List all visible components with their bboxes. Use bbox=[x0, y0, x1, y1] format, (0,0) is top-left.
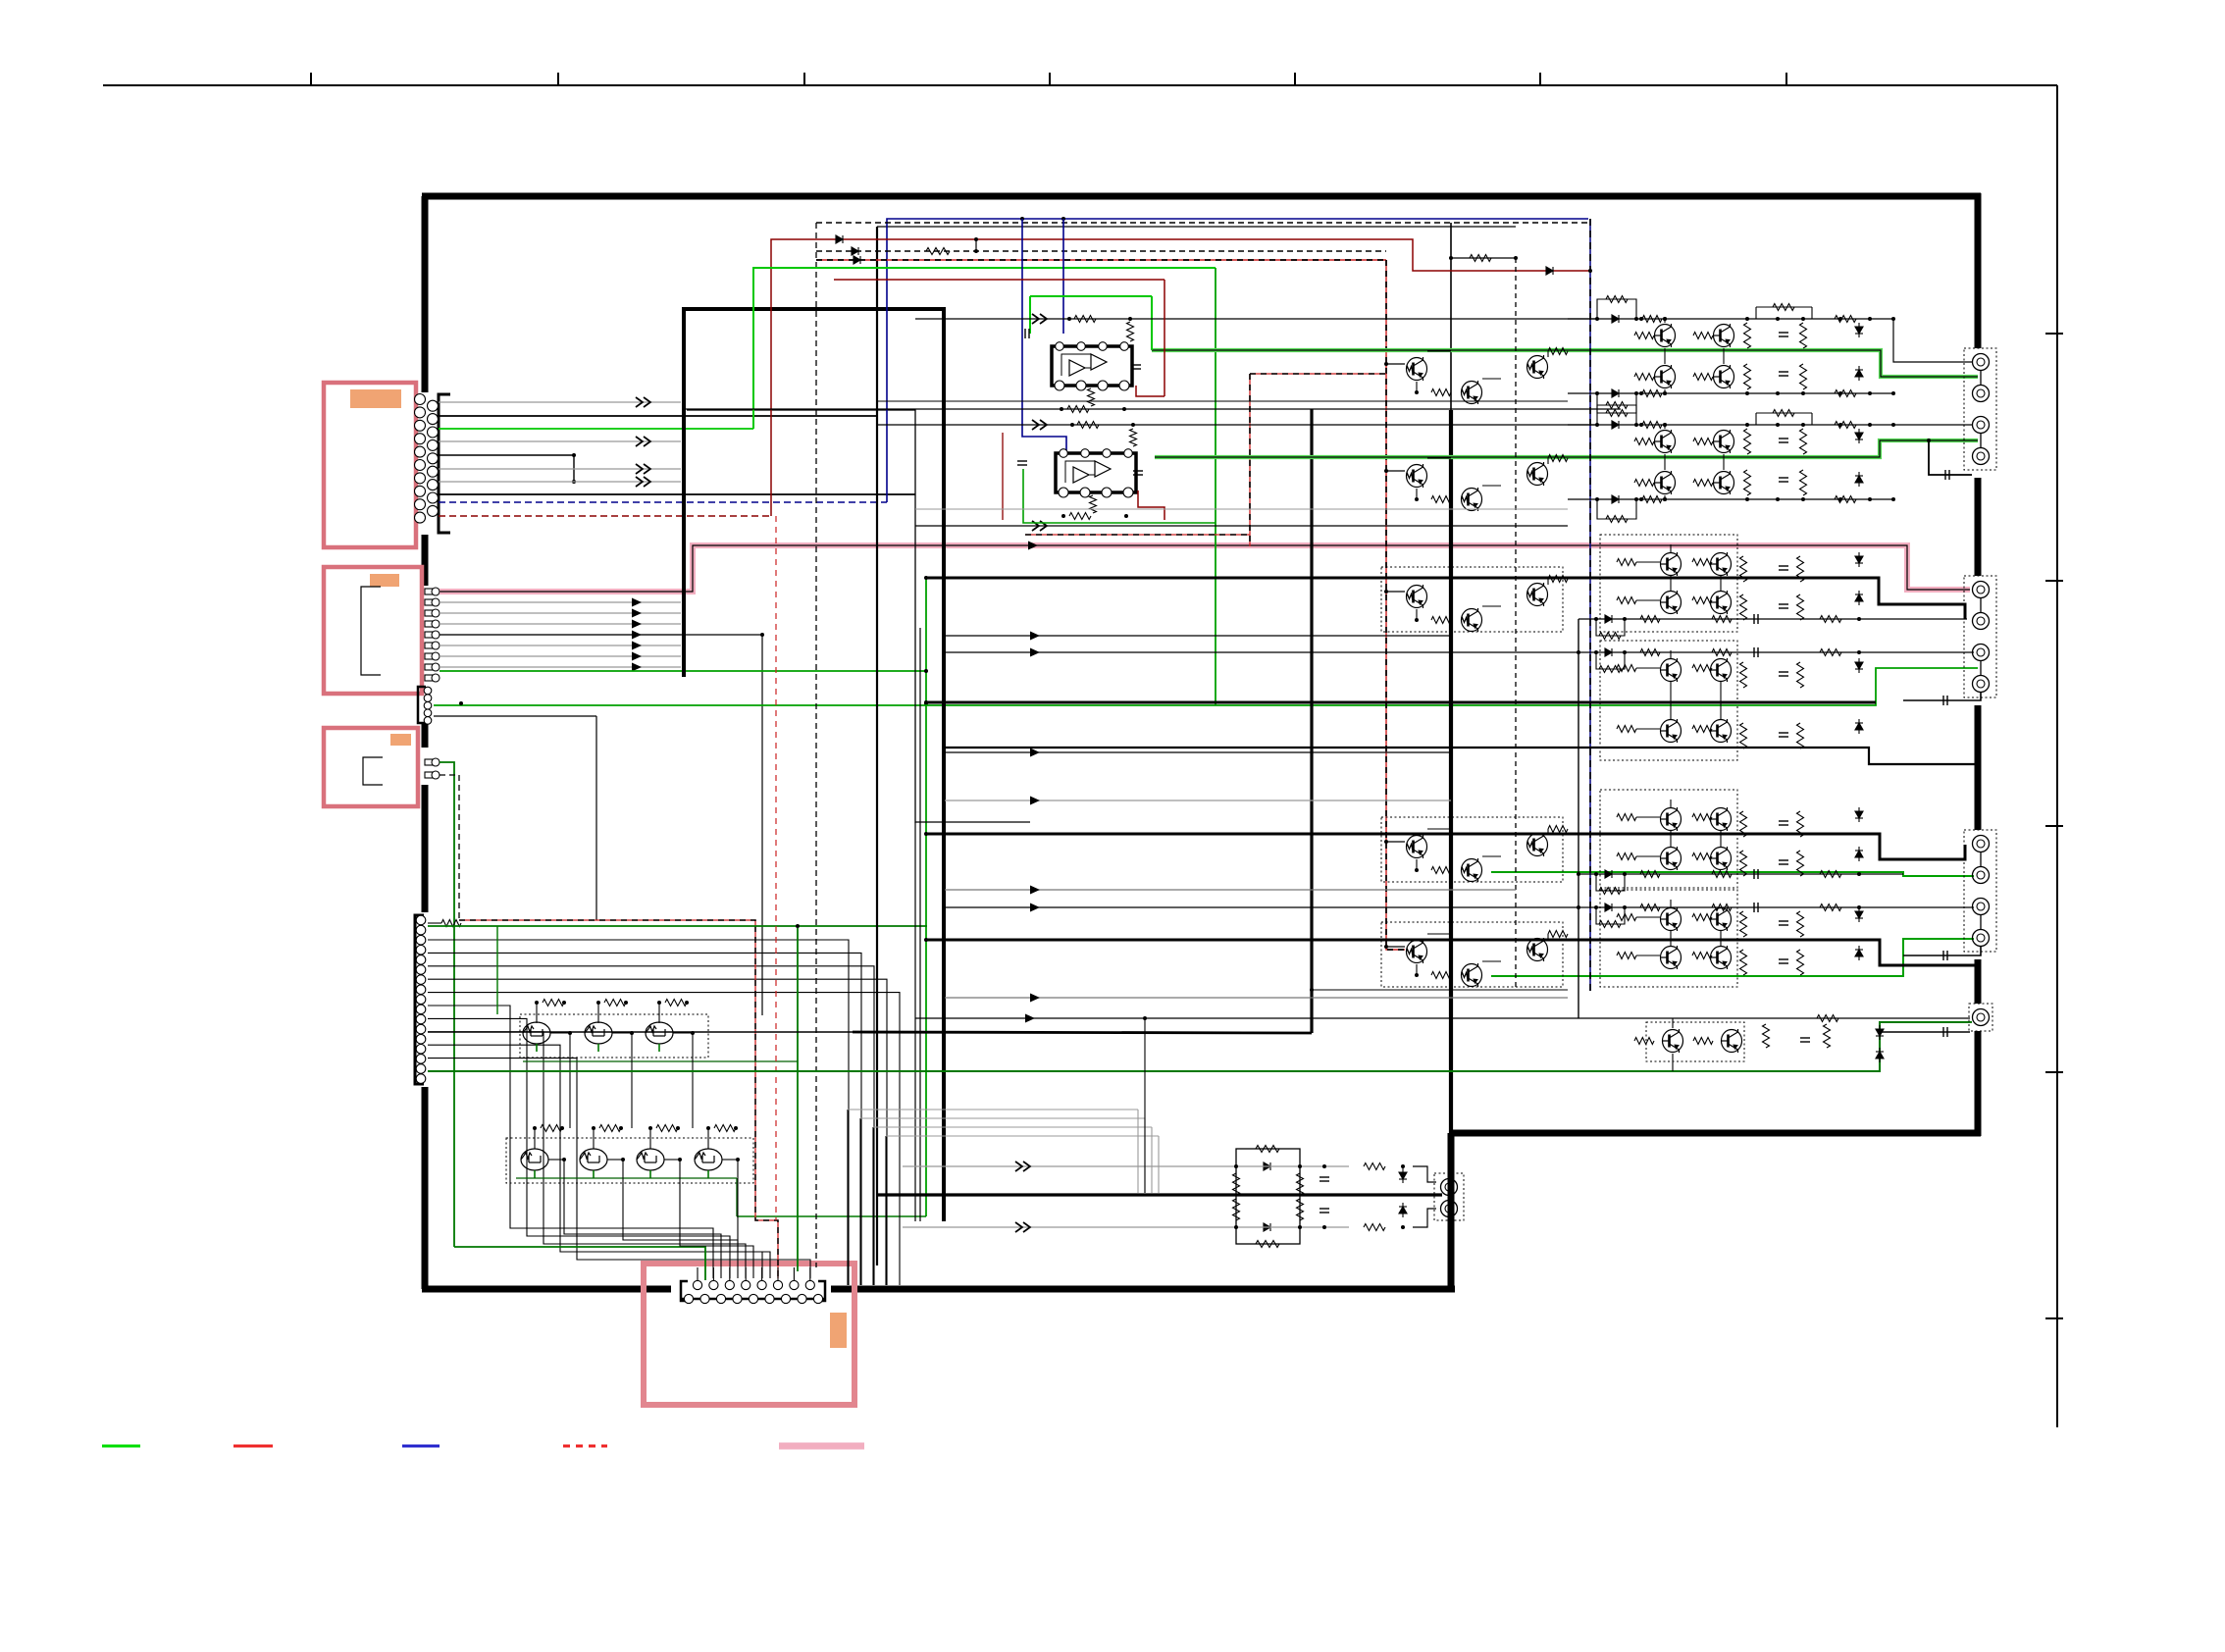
resistor R65 bbox=[1797, 556, 1804, 582]
junction bbox=[1128, 317, 1132, 321]
junction bbox=[1857, 617, 1861, 621]
diode D23 bbox=[1605, 870, 1612, 878]
op-amp U1 internal wire bbox=[1085, 367, 1091, 369]
wire bbox=[649, 1128, 651, 1149]
wire bbox=[1482, 485, 1501, 487]
green cluster B drop bbox=[736, 1178, 738, 1216]
wire sub branch bbox=[1144, 1018, 1146, 1193]
wire bbox=[1756, 306, 1812, 308]
wire bbox=[1664, 348, 1666, 364]
headphone jack outline bbox=[1434, 1173, 1464, 1220]
wire bbox=[1547, 458, 1549, 464]
blue wire to IC1 bbox=[1062, 219, 1064, 334]
junction bbox=[734, 1126, 738, 1130]
transistor CH4 Q13 bbox=[1711, 658, 1732, 682]
wire CN1 red dashed signal bbox=[439, 515, 771, 517]
op-amp U1 bbox=[1052, 346, 1132, 386]
resistor R79 bbox=[1740, 811, 1747, 837]
output group FRONT jack J1 bbox=[1973, 354, 1990, 371]
connector block CB2 inner bracket bbox=[361, 587, 381, 675]
junction bbox=[1801, 497, 1805, 501]
op-amp U2 pin bbox=[1060, 449, 1068, 458]
resistor R60 bbox=[1692, 559, 1712, 566]
resistor R103 bbox=[1599, 921, 1621, 928]
junction bbox=[1415, 618, 1419, 622]
wire CN3 green signal bbox=[440, 762, 454, 1247]
resistor R62 bbox=[1692, 597, 1712, 604]
connector block CB3 outline bbox=[324, 728, 418, 806]
capacitor C9 bbox=[1779, 821, 1788, 825]
junction bbox=[1776, 391, 1780, 395]
resistor R46 bbox=[1642, 422, 1662, 429]
resistor R70 bbox=[1692, 726, 1712, 733]
frame top ruler line bbox=[103, 84, 2057, 86]
wire bbox=[1416, 489, 1418, 499]
connector CN1 pin p4 bbox=[415, 434, 426, 444]
wire bbox=[1672, 1018, 1674, 1028]
wire loop bbox=[1596, 874, 1625, 891]
wire stub bbox=[697, 1267, 699, 1280]
capacitor U2 out bbox=[1133, 471, 1143, 475]
main board border left segment bbox=[422, 196, 429, 392]
signal arrow A6 bbox=[632, 598, 642, 607]
capacitor REAR bbox=[1943, 696, 1947, 705]
power rail channel 5 bbox=[926, 834, 1965, 859]
main board border left segment bbox=[422, 535, 429, 586]
frame tick bbox=[310, 73, 312, 85]
frame tick bbox=[2045, 1317, 2063, 1319]
wire bbox=[1720, 931, 1722, 946]
junction bbox=[1745, 497, 1749, 501]
wire CN1 blue dashed signal bbox=[439, 501, 887, 503]
resistor R78 bbox=[1692, 853, 1712, 860]
junction bbox=[1298, 1164, 1302, 1168]
wire bbox=[1720, 682, 1722, 719]
resistor R50 bbox=[1634, 480, 1654, 487]
wire bbox=[1670, 682, 1672, 719]
junction bbox=[1663, 497, 1667, 501]
resistor R64 bbox=[1740, 594, 1747, 620]
junction bbox=[592, 1126, 595, 1130]
signal arrow A22 bbox=[1030, 994, 1040, 1003]
signal arrow A23 bbox=[1025, 1014, 1035, 1023]
resistor R32 bbox=[1642, 390, 1662, 397]
green wire lower bus bbox=[454, 1247, 705, 1280]
main board border right segment bbox=[1975, 478, 1982, 576]
connector CN3 pin p34 bbox=[425, 758, 440, 766]
resistor R75 bbox=[1617, 814, 1636, 821]
resistor R8 bbox=[714, 1125, 736, 1132]
op-amp U2 pin bbox=[1059, 488, 1068, 497]
blue vertical bus dash overlay bbox=[1589, 219, 1591, 991]
op-amp U1 pin bbox=[1055, 381, 1064, 390]
junction bbox=[1838, 317, 1842, 321]
legend red line bbox=[233, 1445, 273, 1448]
transistor DRV1b bbox=[1462, 381, 1482, 404]
connector CN5 bracket right bbox=[818, 1281, 825, 1301]
junction bbox=[562, 1158, 566, 1162]
wire bbox=[1416, 609, 1418, 620]
wire bbox=[664, 1159, 680, 1161]
junction bbox=[1868, 317, 1872, 321]
green route channel 6 bbox=[1491, 939, 1974, 976]
wire driver base bbox=[1386, 841, 1405, 843]
resistor R112 bbox=[1256, 1146, 1279, 1153]
wire mid rail 1017 bbox=[945, 997, 1568, 999]
transistor DRV4a bbox=[1407, 835, 1427, 858]
signal arrow A10 bbox=[632, 642, 642, 650]
wire bbox=[607, 1159, 623, 1161]
power rail channel 6 bbox=[926, 940, 1978, 965]
output group SURR jack J11 bbox=[1973, 899, 1990, 915]
junction bbox=[1857, 650, 1861, 654]
transistor CH5 Q18 bbox=[1661, 847, 1682, 870]
junction bbox=[676, 1126, 680, 1130]
connector CN1 pin p12 bbox=[428, 414, 439, 425]
bus line horizontal C bbox=[877, 226, 1516, 228]
transistor CH2 Q3 bbox=[1655, 471, 1676, 494]
wire bbox=[1636, 955, 1660, 956]
wire CN2 signal 2 bbox=[440, 612, 681, 614]
red horizontal U1 bbox=[834, 279, 1164, 281]
connector CN5 bracket left bbox=[681, 1281, 688, 1301]
wire CN4 harness upper 1 bbox=[428, 940, 849, 1285]
junction bbox=[535, 1001, 539, 1005]
wire rail subwoofer bbox=[915, 1017, 1970, 1019]
transistor CH3 Q11 bbox=[1711, 591, 1732, 614]
resistor R7 bbox=[656, 1125, 678, 1132]
connector CN4 pin p41 bbox=[416, 965, 426, 975]
wire stub bbox=[712, 1267, 714, 1280]
wire bbox=[1664, 425, 1666, 429]
wire bbox=[1980, 433, 1982, 448]
green route channel 1 halo bbox=[1152, 350, 1978, 377]
wire CN2 signal 4 bbox=[440, 634, 681, 636]
wire CN4 harness lower 4 bbox=[428, 1045, 762, 1278]
diode D12 bbox=[1855, 472, 1863, 487]
resistor R83 bbox=[1617, 914, 1636, 921]
transistor DRV5c bbox=[1527, 938, 1548, 961]
diode D10 bbox=[1612, 495, 1619, 503]
bus line horizontal F bbox=[853, 1032, 1312, 1033]
connector CN1 pin p10 bbox=[415, 512, 426, 523]
resistor R10 bbox=[1470, 255, 1491, 262]
junction bbox=[1401, 1164, 1405, 1168]
wire CN2 signal long bbox=[440, 634, 762, 636]
wire driver base bbox=[1386, 363, 1405, 365]
wire CN1 signal 1 bbox=[439, 401, 681, 403]
capacitor green U1 bbox=[1025, 329, 1029, 338]
connector CN1 pin p16 bbox=[428, 466, 439, 477]
signal arrow A11 bbox=[632, 652, 642, 661]
junction bbox=[1745, 391, 1749, 395]
signal arrow A5 bbox=[1028, 542, 1038, 550]
green emitter stub bbox=[707, 1170, 709, 1178]
wire CN1 signal 7 bbox=[439, 481, 681, 483]
connector CN2 pin p28 bbox=[425, 674, 440, 682]
wire driver base bbox=[1386, 946, 1405, 948]
diode D6 bbox=[1612, 389, 1619, 397]
junction bbox=[1594, 872, 1598, 876]
resistor R82 bbox=[1797, 851, 1804, 876]
junction bbox=[1595, 317, 1599, 321]
output group REAR outline bbox=[1964, 576, 1996, 697]
op-amp U2 bbox=[1056, 453, 1136, 492]
wire row1 rail left bbox=[915, 318, 1595, 320]
resistor R88 bbox=[1740, 950, 1747, 975]
signal arrow A17 bbox=[1030, 648, 1040, 657]
capacitor C1 bbox=[1779, 333, 1788, 336]
wire bbox=[1811, 307, 1813, 319]
junction bbox=[533, 1126, 537, 1130]
wire CN1 signal 5 bbox=[439, 454, 574, 456]
output group REAR jack J7 bbox=[1973, 645, 1990, 661]
wire CN4 pin1 bbox=[428, 922, 441, 924]
op-amp U1 opamp B bbox=[1091, 354, 1107, 370]
resistor R51 bbox=[1693, 480, 1713, 487]
wire output line 925 bbox=[945, 906, 1974, 908]
wire bbox=[1670, 800, 1672, 807]
connector CN4 pin p40 bbox=[416, 955, 426, 965]
transistor CH1 Q1 bbox=[1655, 324, 1676, 347]
op-amp U1 pin bbox=[1119, 381, 1129, 390]
signal arrow A18 bbox=[1030, 749, 1040, 757]
signal arrow A24 bbox=[1015, 1162, 1030, 1171]
resistor R33 bbox=[1634, 333, 1654, 339]
wire CN2b signal bbox=[434, 715, 596, 717]
junction bbox=[1891, 391, 1895, 395]
wire output line 665 bbox=[945, 651, 1974, 653]
resistor R49 bbox=[1693, 439, 1713, 445]
op-amp U1 opamp A bbox=[1069, 360, 1085, 376]
green route channel 1 core bbox=[1152, 350, 1978, 377]
wire bbox=[1664, 454, 1666, 470]
connector CN2 pin p27 bbox=[425, 663, 440, 671]
wire bbox=[1416, 382, 1418, 392]
red wire U2b bbox=[1002, 433, 1004, 520]
op-amp U2 internal wire bbox=[1065, 461, 1095, 483]
wire mid rail 648 bbox=[945, 635, 1451, 637]
resistor R25 bbox=[1431, 867, 1451, 874]
bus line D bbox=[687, 410, 1030, 822]
junction bbox=[1634, 391, 1638, 395]
resistor R73 bbox=[1797, 662, 1804, 688]
wire harness horiz 2 bbox=[860, 1117, 1145, 1119]
frame tick bbox=[1049, 73, 1051, 85]
wire bbox=[1636, 728, 1660, 730]
legend red dashed line bbox=[563, 1445, 607, 1448]
transistor CH5 Q16 bbox=[1661, 807, 1682, 831]
main board border bottom left bbox=[422, 1286, 671, 1293]
main board border step vertical bbox=[1448, 1133, 1455, 1292]
junction bbox=[572, 480, 576, 484]
resistor R91 bbox=[1599, 633, 1621, 640]
headphone jack ring bbox=[1441, 1201, 1458, 1217]
capacitor C8 bbox=[1779, 733, 1788, 737]
green route channel 2 core bbox=[1155, 440, 1978, 457]
resistor R38 bbox=[1744, 364, 1751, 389]
signal arrow A7 bbox=[632, 609, 642, 618]
connector CN2 pin p24 bbox=[425, 631, 440, 639]
output stage CH6 outline bbox=[1600, 890, 1737, 987]
junction bbox=[1298, 1225, 1302, 1229]
connector CN4 pin p50 bbox=[416, 1055, 426, 1064]
bus line vertical H bbox=[1578, 619, 1579, 1018]
junction bbox=[459, 701, 463, 705]
junction bbox=[691, 1031, 695, 1035]
wire harness horiz 4 bbox=[886, 1135, 1159, 1137]
junction bbox=[1514, 256, 1518, 260]
bus line horizontal F left bbox=[428, 1031, 853, 1033]
wire bbox=[1664, 319, 1666, 323]
resistor R35 bbox=[1634, 374, 1654, 381]
junction bbox=[621, 1158, 625, 1162]
wire CH1 loop bbox=[1597, 299, 1636, 319]
wire CH2 loop bbox=[1597, 405, 1636, 425]
connector CN5 pin p64 bbox=[733, 1294, 742, 1303]
red black dashed link overlay bbox=[1250, 373, 1386, 375]
capacitor C3 bbox=[1779, 439, 1788, 442]
connector CN5 pin p63 bbox=[716, 1294, 725, 1303]
transistor Q6 bbox=[637, 1149, 664, 1170]
main board border top bbox=[422, 193, 1981, 200]
resistor R2 bbox=[543, 1000, 564, 1007]
junction bbox=[1663, 317, 1667, 321]
connector CN1 pin p19 bbox=[428, 505, 439, 516]
wire bbox=[1636, 916, 1660, 918]
wire CN2 signal 7 bbox=[440, 666, 681, 668]
junction bbox=[1384, 469, 1388, 473]
junction bbox=[1595, 497, 1599, 501]
resistor R28 bbox=[1548, 931, 1568, 938]
op-amp U2 pin bbox=[1103, 449, 1112, 458]
red black dashed link vertical overlay bbox=[1249, 374, 1251, 546]
wire mid rail 536 bbox=[915, 525, 1568, 527]
bus line vertical B bbox=[942, 307, 946, 1221]
diode D11 bbox=[1855, 429, 1863, 443]
connector CN5 pin p62 bbox=[700, 1294, 709, 1303]
connector CN1 pin p14 bbox=[428, 439, 439, 450]
wire stub bbox=[729, 1267, 731, 1280]
junction bbox=[648, 1126, 652, 1130]
wire bbox=[1482, 960, 1501, 962]
output single outline bbox=[1969, 1004, 1992, 1031]
black dashed vertical bus bbox=[815, 223, 817, 1267]
green cluster B bus bbox=[516, 1177, 737, 1179]
main board border right segment bbox=[1975, 193, 1982, 348]
transistor CH1 Q3 bbox=[1655, 365, 1676, 388]
wire bbox=[1427, 350, 1451, 352]
red black dashed lower link bbox=[1025, 534, 1250, 536]
connector CN4 pin p44 bbox=[416, 995, 426, 1005]
green branch to cluster A bbox=[496, 926, 498, 1014]
junction bbox=[1891, 317, 1895, 321]
transistor DRV5a bbox=[1407, 940, 1427, 963]
op-amp U2 pin bbox=[1124, 449, 1133, 458]
wire cap stub REAR bbox=[1903, 692, 1981, 700]
junction bbox=[1060, 407, 1063, 411]
connector CN5 pin p66 bbox=[765, 1294, 774, 1303]
junction bbox=[1663, 497, 1667, 501]
bus line horizontal A bbox=[682, 307, 946, 311]
wire mid rail 519 bbox=[915, 508, 1568, 510]
junction bbox=[1776, 497, 1780, 501]
diode D9 bbox=[1612, 421, 1619, 429]
junction bbox=[1577, 650, 1580, 654]
red black dashed link bbox=[1250, 373, 1386, 375]
wire bbox=[1980, 852, 1982, 867]
transistor CH4 Q15 bbox=[1711, 719, 1732, 743]
junction bbox=[1745, 317, 1749, 321]
junction bbox=[1868, 497, 1872, 501]
legend pink line bbox=[779, 1443, 864, 1450]
junction bbox=[1594, 905, 1598, 909]
resistor R99 bbox=[1599, 888, 1621, 895]
connector CN4 pin p39 bbox=[416, 946, 426, 955]
junction bbox=[1322, 1225, 1326, 1229]
signal arrow A19 bbox=[1030, 797, 1040, 805]
diode D15 bbox=[1855, 658, 1863, 673]
resistor R39 bbox=[1773, 304, 1794, 311]
junction bbox=[1891, 497, 1895, 501]
wire bbox=[1672, 1054, 1674, 1071]
diode D8 bbox=[1855, 366, 1863, 381]
green emitter stub bbox=[593, 1170, 595, 1178]
resistor R87 bbox=[1740, 911, 1747, 937]
resistor R77 bbox=[1617, 853, 1636, 860]
capacitor C7 bbox=[1779, 672, 1788, 676]
wire bbox=[1482, 378, 1501, 380]
wire loop bbox=[1596, 619, 1625, 636]
green route channel 5 bbox=[1491, 872, 1974, 876]
resistor R81 bbox=[1797, 811, 1804, 837]
wire cluster B harness bbox=[564, 1160, 721, 1278]
junction bbox=[924, 832, 928, 836]
wire CH1 top rail bbox=[1568, 318, 1893, 320]
connector CN1 pin p5 bbox=[415, 446, 426, 457]
connector CN5 pin p57 bbox=[757, 1280, 766, 1289]
connector block CB3 label bbox=[390, 734, 411, 746]
output group FRONT jack J2 bbox=[1973, 386, 1990, 402]
junction bbox=[974, 237, 978, 241]
capacitor HP2 bbox=[1319, 1209, 1329, 1213]
wire row2 rail left bbox=[877, 424, 1595, 426]
connector CN5 pin p56 bbox=[742, 1280, 750, 1289]
wire headphone L bbox=[903, 1165, 1349, 1167]
connector CN1 pin p7 bbox=[415, 473, 426, 484]
connector CN1 pin p17 bbox=[428, 480, 439, 490]
resistor R71 bbox=[1740, 662, 1747, 688]
junction bbox=[1801, 423, 1805, 427]
wire bbox=[1636, 561, 1660, 563]
transistor CH3 Q9 bbox=[1711, 552, 1732, 576]
wire stub bbox=[745, 1267, 747, 1280]
wire bbox=[1547, 351, 1549, 357]
transistor CH1 Q2 bbox=[1714, 324, 1734, 347]
wire harness drop r1 bbox=[1137, 1110, 1139, 1193]
frame tick bbox=[557, 73, 559, 85]
wire bbox=[1756, 412, 1812, 414]
junction bbox=[1868, 423, 1872, 427]
wire mid rail 767 bbox=[945, 751, 1451, 753]
wire bbox=[1980, 660, 1982, 676]
transistor CH4 Q12 bbox=[1661, 658, 1682, 682]
resistor R116 bbox=[1297, 1173, 1304, 1195]
connector CN4 pin p46 bbox=[416, 1014, 426, 1024]
diode D22 bbox=[1605, 648, 1612, 656]
junction bbox=[1415, 973, 1419, 977]
resistor R21 bbox=[1431, 496, 1451, 503]
